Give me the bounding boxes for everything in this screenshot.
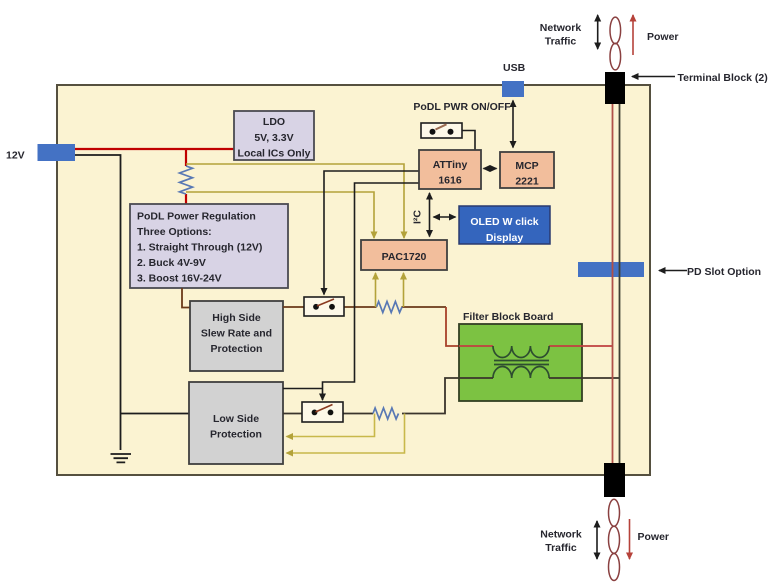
svg-text:OLED W click: OLED W click	[470, 216, 538, 228]
resistor R-high horizontal	[377, 302, 403, 313]
PD Slot callout arrow	[659, 270, 687, 272]
wire switch to ATTiny	[462, 131, 475, 151]
svg-text:1616: 1616	[438, 175, 462, 187]
PAC1720 box	[361, 240, 447, 270]
PoDL Power Regulation box	[130, 204, 288, 288]
svg-text:Protection: Protection	[210, 429, 262, 441]
Terminal Block callout arrow	[632, 76, 675, 78]
wire ATTiny-MCP	[484, 168, 497, 170]
svg-text:Slew Rate and: Slew Rate and	[201, 328, 272, 340]
main board box	[57, 85, 650, 475]
bottom network traffic arrow	[596, 521, 598, 559]
svg-text:I²C: I²C	[412, 210, 424, 224]
ground	[111, 454, 132, 462]
svg-text:Power: Power	[638, 531, 670, 543]
wire low side power dark	[283, 378, 459, 414]
svg-text:LDO: LDO	[263, 116, 285, 128]
svg-text:2221: 2221	[515, 176, 539, 188]
wire PoDL to High Side brown	[182, 288, 190, 308]
svg-text:Protection: Protection	[211, 343, 263, 355]
switch S-high	[304, 297, 344, 316]
svg-text:Three Options:: Three Options:	[137, 226, 212, 238]
resistor R-low horizontal	[373, 408, 399, 419]
wire olive sense A	[186, 164, 404, 238]
transformer core	[494, 361, 549, 365]
filter board box	[459, 324, 582, 401]
svg-text:5V, 3.3V: 5V, 3.3V	[254, 132, 293, 144]
ATTiny box	[419, 150, 481, 189]
wire low sense feedback 1	[287, 414, 375, 437]
terminal block top	[605, 72, 625, 104]
svg-text:2. Buck 4V-9V: 2. Buck 4V-9V	[137, 257, 206, 269]
12V connector	[38, 144, 76, 161]
svg-text:Power: Power	[647, 31, 679, 43]
wire PAC sense up left	[375, 273, 377, 307]
svg-text:MCP: MCP	[515, 160, 538, 172]
OLED display box	[459, 206, 550, 244]
svg-text:Network: Network	[540, 529, 582, 541]
top power arrow	[632, 15, 634, 55]
svg-text:PAC1720: PAC1720	[382, 251, 427, 263]
wire ATTiny ctrl low	[323, 183, 420, 400]
svg-text:3. Boost 16V-24V: 3. Boost 16V-24V	[137, 273, 222, 285]
top twisted pair	[610, 17, 621, 44]
wire high side power brown	[283, 306, 446, 308]
wire high side to filter red	[446, 307, 459, 346]
svg-text:PoDL Power Regulation: PoDL Power Regulation	[137, 211, 256, 223]
switch S-low	[302, 402, 343, 422]
PD slot connector	[578, 262, 644, 277]
wire trunk red	[612, 104, 614, 463]
Low Side box	[189, 382, 283, 464]
svg-text:Traffic: Traffic	[545, 542, 577, 554]
wire filter bottom dark	[459, 377, 620, 379]
wire trunk dark	[619, 104, 621, 463]
wire I2C to OLED	[434, 216, 456, 218]
svg-text:Display: Display	[486, 232, 524, 244]
wire ground black	[75, 155, 190, 450]
svg-text:12V: 12V	[6, 150, 25, 162]
wire PAC sense up right	[403, 273, 405, 307]
LDO box	[234, 111, 314, 160]
svg-text:High Side: High Side	[212, 312, 261, 324]
wire I2C ATTiny-PAC	[429, 193, 431, 237]
svg-text:Filter Block Board: Filter Block Board	[463, 311, 553, 323]
resistor R-sense vertical	[180, 166, 193, 194]
USB connector	[502, 81, 524, 97]
top network traffic arrow	[597, 15, 599, 49]
wire filter top red	[459, 345, 613, 347]
svg-text:Network: Network	[540, 22, 582, 34]
svg-text:Low Side: Low Side	[213, 413, 259, 425]
svg-text:ATTiny: ATTiny	[433, 159, 468, 171]
MCP box	[500, 152, 554, 188]
wire ATTiny ctrl high	[324, 171, 419, 295]
svg-text:Terminal Block (2): Terminal Block (2)	[678, 72, 768, 84]
svg-text:PD Slot Option: PD Slot Option	[687, 266, 761, 278]
bottom power arrow	[629, 519, 631, 559]
transformer bottom coil	[493, 366, 549, 378]
wire low sense feedback 2	[287, 414, 405, 454]
wire olive sense B	[186, 192, 374, 238]
wire USB-MCP	[512, 101, 514, 148]
wire 12V red rail	[75, 149, 236, 204]
svg-text:Traffic: Traffic	[545, 36, 577, 48]
svg-text:PoDL PWR ON/OFF: PoDL PWR ON/OFF	[413, 101, 511, 113]
wire low side ctrl join	[283, 388, 323, 390]
svg-text:USB: USB	[503, 62, 526, 74]
transformer top coil	[493, 346, 549, 358]
bottom twisted pair	[609, 499, 620, 526]
High Side box	[190, 301, 283, 371]
svg-text:1. Straight Through (12V): 1. Straight Through (12V)	[137, 242, 262, 254]
switch S-pwr	[421, 123, 462, 138]
terminal block bottom	[604, 463, 625, 497]
svg-text:Local ICs Only: Local ICs Only	[238, 148, 311, 160]
